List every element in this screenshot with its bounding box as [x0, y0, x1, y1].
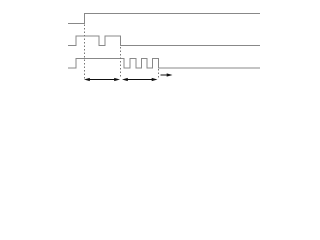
dimension span 1 line (x=84 to x=120) — [89, 79, 116, 81]
dimension span 2 line (x=122 to x=157.5) — [127, 79, 153, 81]
waveform trace 1 (top signal, single rising edge) — [68, 14, 260, 24]
dotted extension line at x=84 (trace 1 rising edge) — [84, 25, 86, 79]
dimension span 1 left arrowhead (points left, tip at x=84) — [84, 78, 90, 81]
dotted extension line at x=120.5 (trace 2 falling edge) — [120, 47, 122, 78]
dimension span 2 right arrowhead (points right, tip at x=157.5) — [152, 78, 158, 81]
short continuation arrow head (points right, tip at x=172.5) — [167, 73, 173, 76]
dimension span 2 left arrowhead (points left, tip at x=122) — [122, 78, 128, 81]
waveform trace 3 (bottom signal, long high then 3-pulse burst) — [68, 59, 260, 69]
waveform trace 2 (middle signal, pulse with narrow low notch) — [68, 36, 260, 46]
dotted extension line at x=158.5 (trace 3 last falling edge) — [158, 69, 160, 78]
short continuation arrow line (to the right of x=158) — [161, 74, 169, 76]
dimension span 1 right arrowhead (points right, tip at x=120) — [114, 78, 120, 81]
